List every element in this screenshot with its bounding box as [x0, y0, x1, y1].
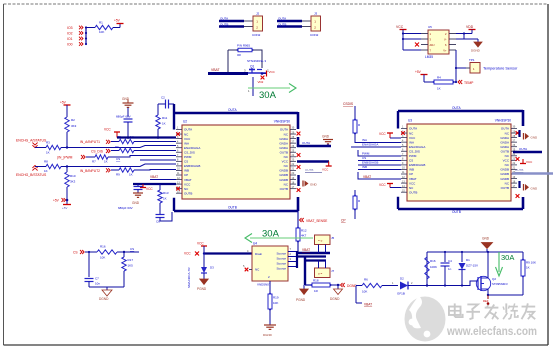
svg-text:DZ7-15V: DZ7-15V [466, 264, 478, 268]
svg-text:VCC: VCC [379, 132, 386, 136]
svg-text:J5: J5 [331, 236, 335, 240]
wire ENB/DIAGB (U3) [358, 164, 401, 166]
wire R6 to U2 pin6 [134, 150, 176, 152]
resistor R3 1K [46, 145, 61, 149]
svg-text:VCC: VCC [197, 242, 204, 246]
svg-text:Q1: Q1 [250, 65, 254, 69]
resistor R9 1K [119, 168, 134, 172]
svg-text:30A: 30A [259, 90, 277, 101]
svg-text:R2: R2 [71, 118, 75, 122]
transistor Q2 STD95N4F3 [477, 277, 479, 290]
svg-text:30A: 30A [501, 253, 514, 262]
svg-text:R9: R9 [116, 173, 120, 177]
wire ENCHG_A to U2 pin5 [61, 146, 176, 148]
svg-text:D3: D3 [210, 266, 214, 270]
svg-text:INA: INA [184, 141, 189, 145]
svg-text:VBAT: VBAT [409, 177, 417, 181]
wire INB (U3) [358, 169, 401, 171]
wire R16 to CS node [117, 251, 139, 253]
wire CS (U3) [358, 160, 401, 162]
resistor R8 1K [46, 164, 61, 168]
watermark text dianzifashaoyou [449, 303, 535, 319]
svg-text:VCC: VCC [104, 128, 111, 132]
svg-text:OUTB: OUTB [452, 210, 461, 214]
U5 pin stubs left [421, 33, 428, 35]
resistor R10 3K3 (pulldown B) [65, 172, 69, 187]
svg-text:OUTA: OUTA [228, 108, 237, 112]
svg-text:OUTB: OUTB [280, 187, 288, 191]
no-connect X U3 left pin2 [401, 131, 405, 135]
jumper J5 [315, 235, 331, 245]
svg-text:ADJ: ADJ [430, 43, 436, 47]
wire ENA/DIAGA (U3) [351, 146, 401, 148]
svg-text:OUTB: OUTB [501, 186, 509, 190]
no-connect X (U4 NC) [249, 269, 252, 271]
wire VBAT to U2 pin12 [150, 179, 176, 181]
bus OUTB (U2 bottom) [173, 198, 175, 211]
svg-text:TP1: TP1 [469, 58, 475, 62]
power VCC (U3 right) [516, 158, 518, 160]
svg-text:VD2: VD2 [258, 80, 264, 84]
svg-text:1K: 1K [129, 173, 133, 177]
svg-text:R6: R6 [115, 145, 119, 149]
svg-text:Source: Source [276, 262, 286, 266]
wire R12 down to VBAT rail [297, 241, 299, 254]
power VCC (Q1 right) [266, 71, 268, 77]
wire CS_DIS to R6 [111, 150, 119, 152]
resistor R18 1R [312, 283, 330, 287]
bus GNDA tie (U2 right) [297, 137, 300, 147]
svg-text:VCC: VCC [409, 136, 416, 140]
svg-text:R8: R8 [44, 160, 48, 164]
bus VCC (U2 bottom-left) [133, 183, 176, 185]
svg-text:VCC: VCC [379, 183, 386, 187]
svg-text:R9 10K: R9 10K [526, 261, 536, 265]
svg-text:+5V: +5V [60, 101, 67, 105]
svg-text:R1: R1 [99, 21, 103, 25]
svg-text:CS_DIS: CS_DIS [409, 149, 420, 153]
bus OUTA (U3 top) [398, 110, 523, 113]
svg-text:INB: INB [362, 165, 367, 169]
port TEMP [458, 80, 460, 84]
capacitor C5 680pF [137, 184, 139, 186]
svg-text:IO0: IO0 [67, 43, 73, 47]
svg-text:+5V: +5V [114, 19, 121, 23]
watermark logo circle [405, 296, 446, 342]
wire OUTA to J1 [219, 20, 244, 22]
capacitor C6 [159, 203, 161, 214]
bus OUTB to edge (U3 right) [512, 172, 553, 175]
svg-text:OUTA: OUTA [302, 141, 310, 145]
svg-text:ENA/DIAGA: ENA/DIAGA [184, 146, 200, 150]
ground GND (below C5) [133, 192, 143, 194]
wire IN_B to R9 [111, 169, 119, 171]
power VCC (U2 right) [328, 162, 330, 167]
svg-text:R12: R12 [301, 229, 307, 233]
svg-text:ENB/DIAGB: ENB/DIAGB [184, 164, 200, 168]
svg-text:CP: CP [409, 172, 413, 176]
wire R20 left to VBAT [356, 285, 362, 287]
svg-text:10K: 10K [99, 30, 104, 34]
svg-text:OUTA: OUTA [519, 147, 527, 151]
svg-text:R19: R19 [273, 296, 279, 300]
svg-text:CSDIS: CSDIS [343, 102, 354, 106]
svg-text:Source: Source [276, 267, 286, 271]
svg-text:DGND: DGND [471, 49, 481, 53]
svg-text:OUTA: OUTA [501, 127, 509, 131]
resistor R16 10K [97, 250, 117, 254]
op-amp U5 LM35 body [428, 30, 449, 54]
svg-text:D2: D2 [400, 277, 404, 281]
svg-text:Drain: Drain [255, 252, 263, 256]
svg-text:o =: o = [318, 272, 323, 276]
U4 source pin stubs [288, 251, 297, 253]
svg-text:1K: 1K [163, 197, 167, 201]
resistor R11 1K (bootstrap) [157, 104, 159, 115]
svg-text:OUTA: OUTA [184, 128, 192, 132]
svg-text:VCC: VCC [526, 160, 533, 164]
wire VBAT bus to Q1 [208, 72, 248, 75]
no-connect X U2 left pin2 [176, 132, 180, 136]
resistor R21 100K [425, 257, 429, 279]
svg-text:1K: 1K [46, 151, 50, 155]
svg-text:100K: 100K [430, 265, 437, 269]
svg-text:VCC: VCC [409, 181, 416, 185]
wire bottom-right loop [488, 294, 523, 296]
ground GND sideways (U2 right GNDB) [302, 181, 304, 187]
bus OUTA (U2 top) [173, 104, 175, 113]
svg-text:GNDB: GNDB [279, 178, 288, 182]
svg-text:GNDB: GNDB [279, 173, 288, 177]
svg-text:CS: CS [116, 157, 120, 161]
resistor R1 10K [95, 25, 113, 29]
IC U2 VNH3SP30 [182, 125, 290, 199]
zener D3 SMAJ40CA [203, 254, 205, 268]
svg-text:Q2: Q2 [492, 277, 496, 281]
svg-text:R17: R17 [128, 258, 134, 262]
wire Q1 to VCC [262, 73, 266, 75]
svg-text:VBAT: VBAT [184, 178, 192, 182]
svg-text:INB: INB [184, 169, 189, 173]
svg-text:J2: J2 [256, 12, 260, 16]
svg-text:STN4NF03L 3: STN4NF03L 3 [247, 59, 266, 63]
svg-text:30A: 30A [262, 229, 280, 240]
svg-text:CS: CS [362, 156, 366, 160]
svg-text:+5V: +5V [53, 199, 60, 203]
svg-text:IN_B/INPUT2: IN_B/INPUT2 [80, 169, 100, 173]
svg-text:4K7: 4K7 [301, 234, 307, 238]
svg-text:U4: U4 [253, 242, 257, 246]
svg-text:10K: 10K [273, 301, 278, 305]
IC U3 VNH3SP30 [407, 124, 511, 201]
svg-text:CON2: CON2 [252, 33, 261, 37]
power +5V bar (bottom) [63, 204, 71, 206]
svg-text:INA: INA [362, 138, 367, 142]
current arrow 30A (left) [250, 237, 313, 239]
svg-text:+5V: +5V [62, 206, 67, 210]
bus OUTA stub (U2 right) [297, 145, 331, 148]
current arrow 30A (down) [498, 252, 500, 272]
diode D4 GF1B [400, 282, 408, 290]
svg-text:Source: Source [276, 252, 286, 256]
svg-text:U3: U3 [408, 119, 412, 123]
wire D4 to node [408, 285, 427, 287]
svg-text:1K: 1K [104, 160, 108, 164]
svg-text:CS: CS [184, 160, 188, 164]
svg-text:VBAT_SENSE: VBAT_SENSE [306, 219, 328, 223]
wire R7 to U2 pin7 [108, 156, 176, 158]
ground GND sideways (U3 GNDB) [518, 181, 520, 188]
svg-text:PGND: PGND [296, 298, 306, 302]
svg-text:C4: C4 [448, 259, 452, 263]
wire to TP1 [456, 67, 466, 69]
power VCC (U2 bottom-left) [142, 184, 144, 187]
svg-text:680pF 63V: 680pF 63V [116, 115, 131, 119]
wire Q2 source down [487, 289, 489, 295]
port DGND [341, 283, 343, 287]
bus OUTB stub (U2 right) [297, 160, 329, 163]
svg-text:GF1B: GF1B [397, 292, 405, 296]
wire R4 to TEMP port [453, 81, 456, 83]
node CP label [354, 209, 356, 219]
svg-text:GNDA: GNDA [279, 146, 288, 150]
svg-text:CS: CS [130, 247, 134, 251]
svg-text:R18: R18 [313, 279, 319, 283]
svg-text:VBAT: VBAT [363, 175, 371, 179]
svg-text:GNDA: GNDA [279, 141, 288, 145]
svg-text:CP: CP [184, 173, 188, 177]
wire Q2 drain up [487, 252, 489, 278]
jumper J7 [315, 268, 331, 278]
resistor R2A 3K3 [65, 117, 69, 132]
svg-text:R6: R6 [364, 278, 368, 282]
svg-text:U2: U2 [183, 120, 187, 124]
svg-text:IO3: IO3 [67, 26, 73, 30]
svg-text:GNDA: GNDA [500, 136, 509, 140]
wire R10 to +5V port [66, 187, 68, 200]
resistor R7 1K [95, 155, 108, 159]
svg-text:J3: J3 [314, 12, 318, 16]
wire VCC rail to U2 pin3 [117, 136, 176, 138]
svg-text:CS_DIS: CS_DIS [184, 150, 195, 154]
no-connect X U2 right NC pins [297, 132, 301, 136]
svg-text:CON2: CON2 [310, 33, 319, 37]
capacitor C1 680pF [124, 118, 133, 120]
svg-text:1K: 1K [526, 266, 530, 270]
wire U5 pin2 to VDD [456, 33, 472, 35]
svg-text:PWM: PWM [362, 152, 370, 156]
svg-text:R10: R10 [70, 174, 76, 178]
svg-text:OUTB: OUTB [278, 23, 286, 27]
svg-text:Source: Source [276, 257, 286, 261]
svg-text:R13: R13 [163, 191, 169, 195]
wire CS to R16 [85, 251, 97, 253]
svg-text:ENCHG_A/STATUS: ENCHG_A/STATUS [16, 139, 47, 143]
svg-text:OUTB: OUTB [184, 191, 192, 195]
wire VCC to U4 drain [204, 252, 252, 254]
svg-text:C7: C7 [95, 277, 99, 281]
svg-text:VCC: VCC [184, 252, 191, 256]
svg-text:10n: 10n [95, 282, 100, 286]
svg-text:VNH3SP30: VNH3SP30 [495, 119, 512, 123]
wire OUTA to J2 [277, 20, 302, 22]
svg-text:3K3: 3K3 [71, 124, 77, 128]
svg-text:GND: GND [531, 186, 539, 190]
svg-text:PWM: PWM [184, 155, 192, 159]
svg-text:OUTA: OUTA [452, 106, 461, 110]
svg-text:R7: R7 [92, 160, 96, 164]
svg-text:1n: 1n [448, 267, 452, 271]
wire OUTB to J1 [219, 25, 244, 27]
wire IN_A to R5 [111, 141, 119, 143]
wire ENCHG_B to U2 pin9 [61, 164, 176, 167]
svg-text:VCC: VCC [184, 137, 191, 141]
svg-text:GNDA: GNDA [500, 145, 509, 149]
svg-text:VDD: VDD [466, 25, 474, 29]
svg-text:IN_A/INPUT1: IN_A/INPUT1 [80, 140, 100, 144]
svg-text:D1: D1 [466, 258, 470, 262]
no-connect X U2 left pin14 [176, 187, 180, 191]
wire VCC to U5 pins [403, 33, 421, 35]
svg-text:VNH3SP30: VNH3SP30 [274, 120, 291, 124]
wire +5V to R4 [424, 81, 434, 83]
ground DGND (R18) [337, 285, 339, 289]
wire top rail [426, 252, 428, 286]
resistor R17 1K5 [123, 252, 125, 257]
connector J1 CON2 [253, 16, 263, 31]
svg-text:DGND: DGND [99, 297, 109, 301]
resistor R2 0R (bypass) [238, 48, 252, 52]
svg-text:ENA/DIAGA: ENA/DIAGA [362, 143, 378, 147]
no-connect X U3 right NC pins [516, 131, 520, 135]
svg-text:CS_DIS: CS_DIS [91, 150, 104, 154]
svg-text:VCC: VCC [503, 159, 510, 163]
svg-text:+5V: +5V [415, 70, 422, 74]
svg-text:TEMP: TEMP [464, 81, 474, 85]
wire PWM to R7 [86, 156, 95, 158]
svg-text:OUTB: OUTB [280, 150, 288, 154]
svg-text:GNDB: GNDB [279, 169, 288, 173]
svg-text:R4: R4 [437, 76, 441, 80]
svg-text:VCC: VCC [396, 25, 404, 29]
svg-text:INB: INB [409, 168, 414, 172]
svg-text:R16: R16 [430, 259, 436, 263]
ground DGND (R19) [264, 324, 276, 326]
svg-text:1K: 1K [437, 87, 441, 91]
ground PGND (D3) [200, 279, 209, 285]
svg-text:10K: 10K [362, 290, 367, 294]
wire CP down [354, 190, 356, 196]
connector J2 CON2 [311, 16, 321, 31]
svg-text:VCC: VCC [322, 168, 329, 172]
svg-text:GND: GND [322, 135, 330, 139]
svg-text:PGND: PGND [197, 287, 207, 291]
svg-text:C2: C2 [161, 96, 165, 100]
svg-text:1K5: 1K5 [128, 264, 134, 268]
resistor R13 1K (charge pump) [159, 184, 161, 190]
svg-text:U5: U5 [428, 25, 432, 29]
wire R9 to U2 pin10 [134, 169, 176, 172]
U5 pin stubs right [449, 33, 456, 35]
resistor R12 4K7 [296, 228, 300, 241]
wire R1 to +5V [113, 27, 120, 29]
bus OUTB (U3 bottom) [397, 197, 399, 209]
ground DGND (filter) [102, 290, 112, 296]
ground PGND (U4 sources) [303, 285, 305, 289]
capacitor C7 10n [88, 252, 90, 277]
wire VBAT (U3) [358, 172, 401, 179]
svg-text:R11: R11 [162, 116, 168, 120]
wire bottom rail to Q2 gate [427, 285, 462, 287]
svg-text:GNDB: GNDB [500, 177, 509, 181]
wire R14 to U3 INA row [355, 133, 401, 143]
capacitor C4 1n [444, 252, 446, 262]
svg-text:P/N R965: P/N R965 [237, 44, 250, 48]
svg-text:VBAT: VBAT [211, 68, 220, 72]
svg-text:OUTB: OUTB [220, 23, 228, 27]
bus U4 sources [296, 251, 298, 268]
svg-text:1K: 1K [44, 169, 48, 173]
svg-text:10K: 10K [100, 256, 105, 260]
svg-text:CP: CP [341, 219, 346, 223]
wire PWM (U3) [358, 150, 401, 156]
svg-text:R16: R16 [100, 245, 106, 249]
svg-text:VCC: VCC [269, 70, 276, 74]
wire IO bus vertical [85, 28, 87, 45]
svg-text:ENB/DIAGB: ENB/DIAGB [409, 163, 425, 167]
svg-text:OUTB: OUTB [409, 190, 417, 194]
svg-text:LM35: LM35 [425, 55, 433, 59]
svg-text:OUTB: OUTB [305, 168, 313, 172]
wire U5 V+ down to TEMP [455, 50, 457, 82]
ground GND sideways (U3 GNDA) [518, 130, 520, 137]
svg-text:www.elecfans.com: www.elecfans.com [446, 324, 537, 338]
svg-text:GND: GND [122, 97, 130, 101]
wire CSDIS down [354, 106, 356, 120]
svg-text:PWM: PWM [409, 154, 417, 158]
svg-text:IO2: IO2 [67, 32, 73, 36]
wire Q1 gate down [252, 77, 254, 96]
svg-text:OUTB: OUTB [228, 206, 237, 210]
resistor R4 1K [434, 80, 453, 84]
svg-text:V+: V+ [443, 49, 447, 53]
wire IO to R1 [86, 27, 95, 29]
svg-text:IO1: IO1 [67, 37, 73, 41]
svg-text:GND: GND [531, 135, 539, 139]
bus GNDB tie (U2 right) [297, 175, 299, 186]
svg-text:GND: GND [132, 201, 140, 205]
svg-text:OUTB: OUTB [515, 168, 523, 172]
wire R5 to U2 pin4 [134, 141, 176, 143]
svg-text:1K: 1K [162, 122, 166, 126]
svg-text:3K3: 3K3 [70, 180, 76, 184]
svg-text:= o: = o [318, 239, 323, 243]
svg-text:DGND: DGND [330, 297, 340, 301]
svg-text:DGND: DGND [263, 333, 273, 337]
svg-text:GNDB: GNDB [500, 172, 509, 176]
svg-text:CS: CS [73, 251, 78, 255]
svg-text:GNDB: GNDB [500, 168, 509, 172]
svg-text:OUTA: OUTA [278, 17, 286, 21]
zener D1 DZ7-15V [461, 252, 463, 262]
resistor R15 [353, 196, 357, 209]
wire U5 V- to DGND [464, 38, 478, 40]
wire R2A to junction [66, 132, 68, 148]
svg-text:VND5N07: VND5N07 [257, 283, 271, 287]
wire R20 to D4 [382, 285, 398, 287]
wire OUTB to J2 [277, 25, 302, 27]
svg-text:VBAT: VBAT [364, 303, 372, 307]
